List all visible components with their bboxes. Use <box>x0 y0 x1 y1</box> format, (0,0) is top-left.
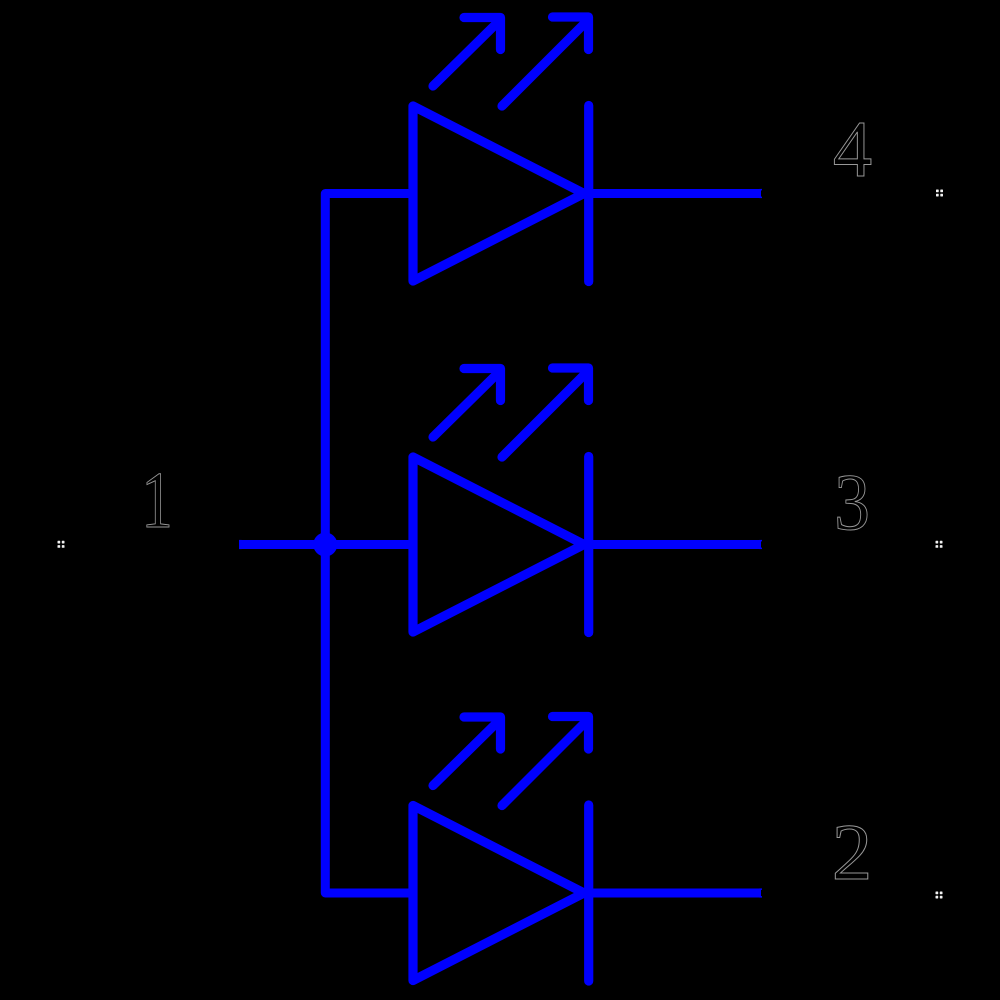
wire: pin 3 from middle LED cathode to right <box>589 540 761 549</box>
pin 3 end marker dots <box>936 541 943 548</box>
junction dot on bus at pin1 wire <box>313 533 337 557</box>
wire: common anode bus with corners to top and bottom LEDs <box>325 194 413 894</box>
LED D3 (bottom) <box>413 717 589 982</box>
pin 4 end marker dots <box>936 190 943 197</box>
pin 3 wire end bracket <box>759 540 762 549</box>
svg-text:3: 3 <box>834 457 870 547</box>
svg-text:4: 4 <box>833 105 872 194</box>
LED D2 (middle) <box>413 368 589 633</box>
LED D1 (top) <box>413 17 589 282</box>
pin 1 wire end bracket <box>239 540 242 549</box>
pin 2 end marker dots <box>936 892 943 899</box>
pin 1 end marker dots <box>58 541 65 548</box>
svg-text:2: 2 <box>832 807 873 897</box>
pin 4 wire end bracket <box>759 189 762 198</box>
wire: pin 4 from top LED cathode to right <box>589 189 761 198</box>
wire: pin 1 net from left to anode of middle LED <box>239 540 413 549</box>
wire: pin 2 from bottom LED cathode to right <box>589 889 761 898</box>
svg-text:1: 1 <box>141 455 173 545</box>
pin 2 wire end bracket <box>759 888 762 897</box>
